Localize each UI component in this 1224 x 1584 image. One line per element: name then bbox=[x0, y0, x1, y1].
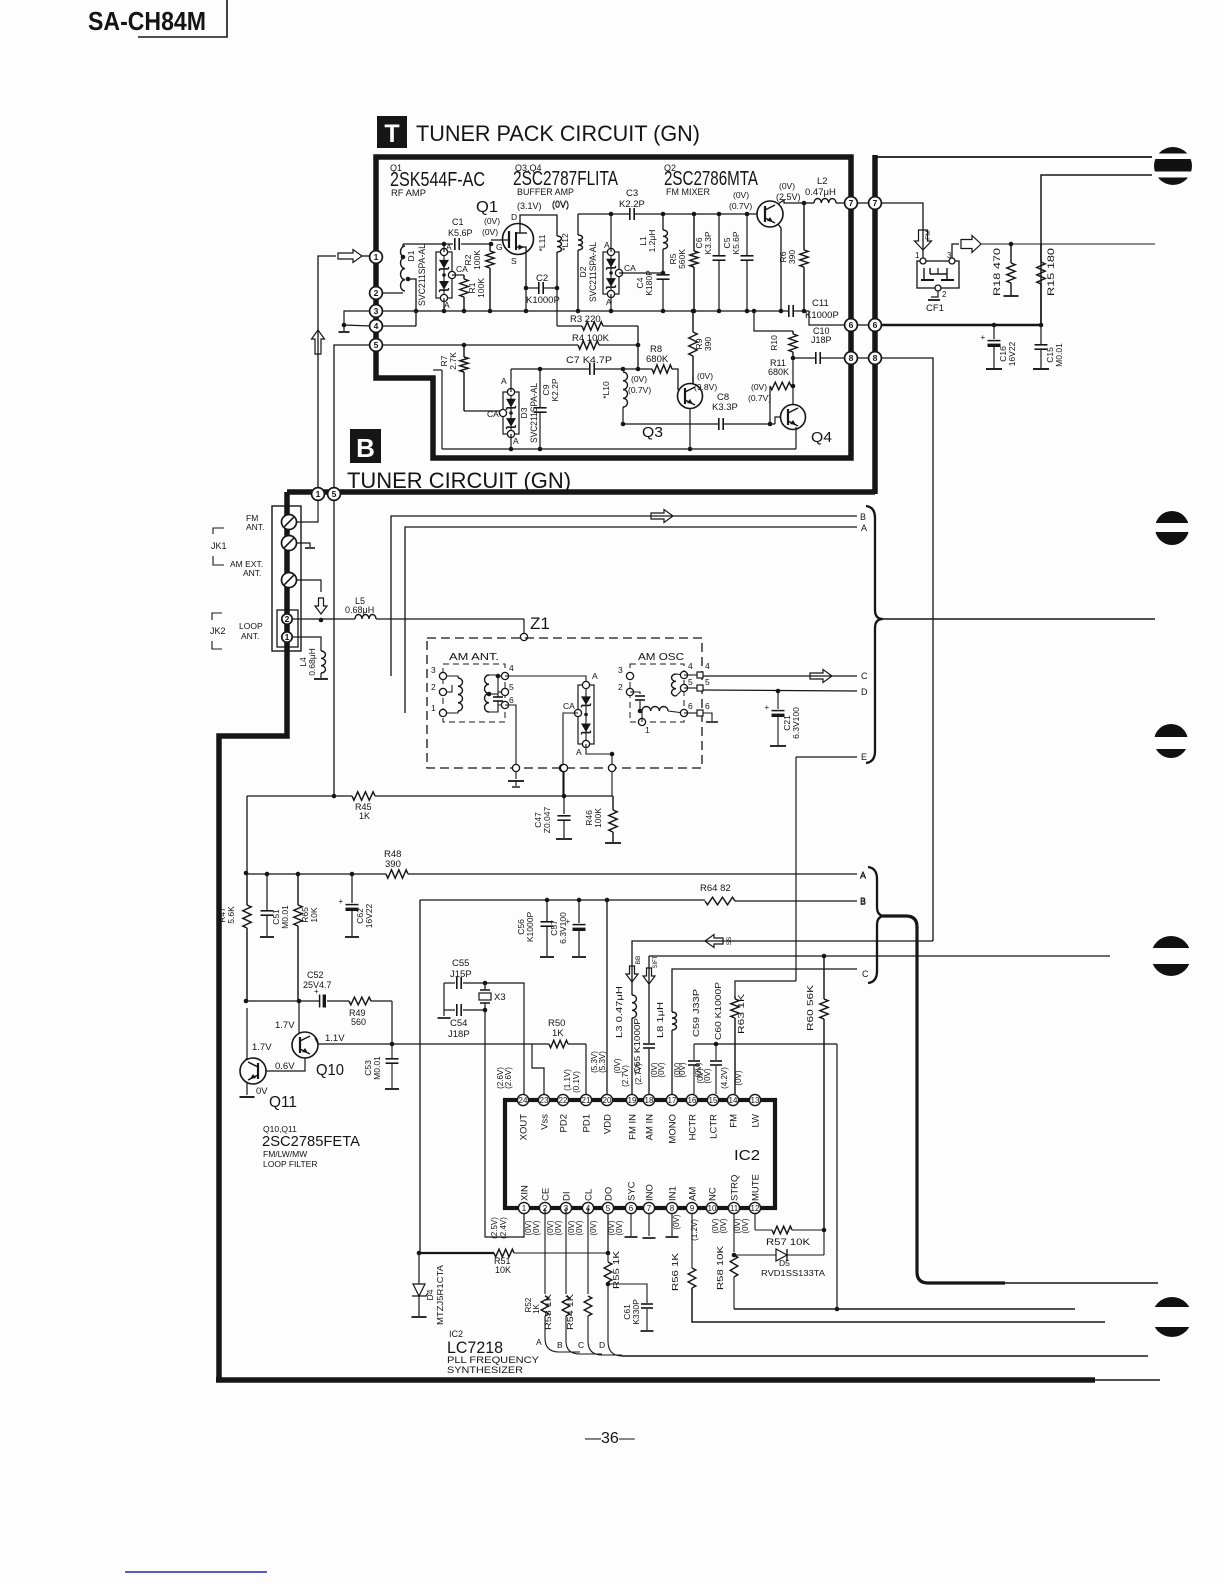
resistor R49 560 bbox=[349, 997, 371, 1005]
svg-text:1: 1 bbox=[316, 489, 321, 499]
svg-text:RF AMP: RF AMP bbox=[391, 188, 426, 199]
svg-text:(2.6V): (2.6V) bbox=[504, 1067, 513, 1089]
transformer block Z1 dashed box bbox=[427, 638, 702, 768]
svg-text:R63 1K: R63 1K bbox=[736, 994, 746, 1034]
IC2 LC7218 body bbox=[505, 1100, 775, 1208]
wire Z1-4 to C bbox=[703, 675, 857, 677]
svg-text:(0V): (0V) bbox=[672, 1214, 681, 1229]
svg-text:5: 5 bbox=[688, 677, 693, 687]
svg-text:SYC: SYC bbox=[627, 1181, 638, 1201]
svg-text:24: 24 bbox=[519, 1096, 528, 1105]
wire D2 bottom bbox=[610, 294, 612, 311]
wire net5 vertical bbox=[334, 345, 370, 488]
wire terminal 1 input bbox=[402, 244, 404, 246]
svg-text:CA: CA bbox=[563, 701, 575, 711]
svg-text:INO: INO bbox=[645, 1184, 656, 1201]
svg-text:680K: 680K bbox=[768, 367, 789, 377]
wire bus A B C D bbox=[607, 1284, 609, 1341]
wire R49 to line bbox=[391, 1001, 393, 1044]
svg-text:8: 8 bbox=[670, 1204, 675, 1213]
capacitor C54 J18P bbox=[443, 983, 445, 1010]
svg-text:15: 15 bbox=[709, 1096, 718, 1105]
svg-text:+: + bbox=[314, 987, 319, 996]
svg-text:J18P: J18P bbox=[448, 1029, 470, 1040]
svg-text:C59 J33P: C59 J33P bbox=[691, 989, 701, 1037]
svg-text:ANT.: ANT. bbox=[241, 631, 259, 641]
svg-text:4: 4 bbox=[374, 321, 379, 331]
svg-text:3: 3 bbox=[431, 665, 436, 675]
svg-text:(0V): (0V) bbox=[482, 227, 498, 237]
capacitor C47 Z0.047 bbox=[562, 794, 567, 799]
svg-text:A: A bbox=[592, 671, 598, 681]
svg-text:6: 6 bbox=[629, 1204, 634, 1213]
svg-text:D: D bbox=[511, 212, 517, 222]
resistor R18 470 bbox=[1010, 244, 1012, 263]
model label box bbox=[138, 0, 227, 37]
resistor R6 390 bbox=[803, 203, 805, 250]
svg-text:SVC211SPA-AL: SVC211SPA-AL bbox=[588, 242, 598, 302]
wire R50 line bbox=[568, 1043, 586, 1045]
terminal circles on tuner circuit border bbox=[312, 488, 325, 501]
svg-text:CA: CA bbox=[624, 263, 636, 273]
AM ANT pins 3 2 1 bbox=[439, 672, 446, 679]
wire D3 bottom bbox=[510, 434, 512, 449]
inductor L3 0.47uH bbox=[632, 995, 637, 1018]
svg-text:*L10: *L10 bbox=[601, 381, 611, 399]
varactor D2 SVC211SPA-AL bbox=[603, 252, 619, 294]
wire D2 CA to L1/C4 node bbox=[619, 272, 663, 274]
svg-text:14: 14 bbox=[729, 1096, 738, 1105]
svg-text:6.3V100: 6.3V100 bbox=[558, 912, 568, 944]
svg-text:3: 3 bbox=[947, 251, 952, 260]
svg-text:XOUT: XOUT bbox=[519, 1114, 530, 1141]
svg-text:C: C bbox=[862, 969, 869, 979]
svg-text:(0V): (0V) bbox=[719, 1218, 728, 1233]
svg-text:JK1: JK1 bbox=[211, 541, 227, 551]
wire SYC INO IN1 grounds bbox=[630, 1214, 632, 1236]
resistor R60 56K bbox=[823, 956, 825, 999]
rail C7 row bbox=[511, 368, 589, 370]
svg-text:(2.7V): (2.7V) bbox=[621, 1065, 630, 1087]
svg-text:B: B bbox=[860, 512, 866, 522]
wire C2 left down bbox=[525, 288, 527, 311]
svg-text:DI: DI bbox=[562, 1192, 573, 1202]
AM ANT transformer dashed box bbox=[443, 664, 505, 722]
svg-text:C3: C3 bbox=[626, 188, 638, 199]
svg-text:C2: C2 bbox=[536, 273, 548, 284]
arrow up on net1 bbox=[312, 330, 325, 354]
resistor R54 1K bbox=[584, 1296, 592, 1316]
svg-text:(0V): (0V) bbox=[733, 190, 749, 200]
svg-text:Q4: Q4 bbox=[811, 429, 832, 446]
ground terminal3/4 bbox=[344, 311, 371, 326]
arrow on line B bbox=[651, 510, 673, 523]
svg-text:(0V): (0V) bbox=[678, 1062, 687, 1077]
varactor D3 SVC211SPA-AL bbox=[503, 392, 519, 434]
svg-text:K1000P: K1000P bbox=[525, 912, 535, 943]
svg-text:Z1: Z1 bbox=[530, 614, 550, 633]
svg-text:1.7V: 1.7V bbox=[252, 1042, 272, 1053]
svg-text:(0V): (0V) bbox=[554, 1220, 563, 1235]
FET Q1 bbox=[503, 224, 534, 255]
tuner circuit border bottom bbox=[216, 1377, 1095, 1383]
coil tap wire bbox=[408, 279, 416, 326]
wire left end of bottom rail bbox=[441, 370, 443, 449]
svg-text:S: S bbox=[511, 256, 517, 266]
svg-text:J18P: J18P bbox=[811, 335, 832, 345]
AM ANT secondary cap bbox=[489, 693, 498, 695]
capacitor C65 K1000P bbox=[643, 1043, 655, 1045]
svg-text:390: 390 bbox=[787, 250, 797, 264]
terminal jack 2 bbox=[282, 614, 292, 624]
svg-text:K2.2P: K2.2P bbox=[550, 378, 560, 401]
binding hole 3 bbox=[1154, 724, 1188, 758]
wire C59 line drop right bbox=[836, 1044, 838, 1309]
svg-text:PD2: PD2 bbox=[559, 1114, 570, 1132]
svg-text:Z0.047: Z0.047 bbox=[542, 806, 552, 833]
resistor R65 10K bbox=[297, 874, 299, 905]
svg-text:CE: CE bbox=[541, 1188, 552, 1201]
svg-text:1.2μH: 1.2μH bbox=[647, 230, 657, 253]
resistor R63 1K bbox=[734, 996, 736, 999]
svg-text:C60 K1000P: C60 K1000P bbox=[713, 982, 723, 1040]
svg-text:100K: 100K bbox=[472, 250, 482, 270]
svg-text:K180P: K180P bbox=[644, 270, 654, 296]
svg-text:XIN: XIN bbox=[520, 1185, 531, 1201]
svg-text:CL: CL bbox=[584, 1189, 595, 1201]
svg-text:(0V): (0V) bbox=[589, 1220, 598, 1235]
transistor Q4 bbox=[781, 405, 806, 430]
terminal circles left 1-5 bbox=[370, 251, 383, 264]
svg-text:13: 13 bbox=[751, 1096, 760, 1105]
inductor *L11 bbox=[557, 236, 562, 252]
resistor R52 1K bbox=[541, 1296, 549, 1316]
svg-text:C11: C11 bbox=[812, 298, 829, 309]
transistor Q10 bbox=[292, 1032, 318, 1058]
svg-text:A: A bbox=[604, 240, 610, 250]
svg-text:PD1: PD1 bbox=[582, 1114, 593, 1132]
svg-text:D: D bbox=[599, 1340, 605, 1350]
svg-text:AM IN: AM IN bbox=[645, 1114, 656, 1141]
svg-text:B: B bbox=[557, 1340, 563, 1350]
svg-text:0.6V: 0.6V bbox=[275, 1061, 295, 1072]
rail terminal3 0V bbox=[381, 310, 788, 312]
svg-text:R10: R10 bbox=[769, 335, 779, 351]
AM ANT pins 4 5 6 bbox=[501, 672, 508, 679]
tuner circuit border top/right bbox=[872, 155, 878, 494]
resistor R57 10K bbox=[754, 1214, 756, 1230]
svg-text:4: 4 bbox=[688, 661, 693, 671]
svg-text:D4: D4 bbox=[425, 1289, 435, 1300]
rail bottom tuner pack bbox=[442, 448, 796, 450]
svg-text:Q3: Q3 bbox=[642, 424, 663, 441]
wire HCTR cap line bbox=[694, 1043, 837, 1045]
svg-text:12: 12 bbox=[751, 1204, 760, 1213]
rail 0V top FM mixer bbox=[578, 213, 629, 215]
svg-text:(1.2V): (1.2V) bbox=[690, 1219, 699, 1241]
rail B with R64 bbox=[419, 900, 421, 1253]
wire R56 to right edge bbox=[692, 1288, 1105, 1322]
svg-text:T: T bbox=[384, 120, 399, 148]
svg-text:A: A bbox=[860, 871, 866, 881]
svg-text:R55 1K: R55 1K bbox=[612, 1250, 621, 1289]
svg-text:—36—: —36— bbox=[585, 1430, 635, 1447]
wire D2 top bbox=[610, 214, 612, 252]
AM ANT secondary coil bbox=[485, 675, 490, 712]
svg-text:6: 6 bbox=[849, 320, 854, 330]
wire Q4 emitter bbox=[795, 427, 797, 449]
svg-text:10: 10 bbox=[708, 1204, 717, 1213]
svg-text:(0V): (0V) bbox=[615, 1220, 624, 1235]
capacitor C57 6.3V100 bbox=[578, 900, 580, 923]
capacitor C11 K1000P bbox=[788, 305, 790, 317]
wire jack2 to L5 bbox=[293, 618, 355, 620]
diode D5 RVD1SS133TA bbox=[734, 1254, 776, 1256]
wire loop filter node bbox=[246, 1000, 319, 1002]
AM OSC cap bbox=[630, 692, 640, 694]
section icon B bbox=[350, 429, 381, 463]
svg-text:JK2: JK2 bbox=[210, 626, 226, 636]
svg-text:6: 6 bbox=[873, 320, 878, 330]
wire Q10 base from node bbox=[298, 1001, 300, 1033]
wire VDD drop bbox=[606, 900, 608, 1094]
wire L5 to Z1 bbox=[523, 619, 525, 634]
svg-text:K5.6P: K5.6P bbox=[448, 228, 473, 238]
jack JK2 inner box bbox=[277, 610, 298, 647]
wire chassis screw ground bbox=[296, 543, 310, 547]
inductor L1 1.2uH bbox=[663, 230, 668, 249]
capacitor C56 K1000P bbox=[546, 900, 548, 921]
wire Q10 collector out bbox=[315, 1038, 318, 1044]
svg-text:+: + bbox=[981, 333, 986, 342]
svg-text:3: 3 bbox=[374, 306, 379, 316]
svg-text:K3.3P: K3.3P bbox=[712, 402, 738, 413]
arrow SS on FM line bbox=[705, 935, 723, 948]
svg-text:(0V): (0V) bbox=[631, 374, 647, 384]
wire MONO to C line bbox=[672, 969, 857, 1012]
svg-text:20: 20 bbox=[603, 1096, 612, 1105]
wire Z1-5 to D bbox=[703, 690, 857, 691]
svg-text:0.68μH: 0.68μH bbox=[345, 605, 374, 615]
svg-text:R57 10K: R57 10K bbox=[766, 1237, 810, 1247]
svg-text:R3 220: R3 220 bbox=[570, 314, 601, 325]
svg-text:(0V): (0V) bbox=[552, 199, 569, 209]
svg-text:1: 1 bbox=[915, 251, 920, 260]
svg-text:8: 8 bbox=[849, 353, 854, 363]
svg-text:1K: 1K bbox=[532, 1303, 541, 1313]
wire Q1 source bbox=[524, 247, 526, 288]
svg-text:LCTR: LCTR bbox=[709, 1114, 720, 1139]
wire AM ANT pin4 to varactor bbox=[505, 676, 586, 682]
capacitor C6 K3.3P bbox=[718, 214, 720, 256]
wire terminal7 to CF1 bbox=[881, 203, 923, 258]
svg-text:2: 2 bbox=[374, 288, 379, 298]
antenna arrow bbox=[315, 598, 327, 614]
svg-text:7: 7 bbox=[873, 198, 878, 208]
svg-text:M0.01: M0.01 bbox=[1054, 343, 1064, 367]
svg-text:(0V): (0V) bbox=[751, 382, 767, 392]
svg-text:MONO: MONO bbox=[668, 1114, 679, 1144]
svg-text:(0.1V): (0.1V) bbox=[572, 1071, 581, 1093]
svg-text:L2: L2 bbox=[817, 176, 828, 187]
resistor R51 10K bbox=[494, 1249, 514, 1257]
wire CF1 pin2 ground bbox=[931, 291, 938, 297]
svg-text:17: 17 bbox=[668, 1096, 677, 1105]
svg-text:R53 1K: R53 1K bbox=[544, 1293, 553, 1330]
svg-text:+: + bbox=[765, 703, 770, 712]
svg-text:VDD: VDD bbox=[603, 1114, 614, 1134]
capacitor C16 16V22 bbox=[993, 325, 995, 339]
svg-text:5.6K: 5.6K bbox=[226, 906, 236, 924]
svg-text:FM IN: FM IN bbox=[628, 1114, 639, 1140]
inductor *L12 bbox=[578, 235, 583, 250]
svg-text:(2.7V): (2.7V) bbox=[634, 1063, 643, 1085]
wire Q2 collector bbox=[778, 200, 804, 204]
wire AM IF line y956 bbox=[648, 956, 650, 1043]
svg-text:M0.01: M0.01 bbox=[280, 905, 290, 929]
svg-text:(2.4V): (2.4V) bbox=[499, 1217, 508, 1239]
svg-text:(9.8V): (9.8V) bbox=[694, 382, 717, 392]
wire R7 to D3 CA bbox=[464, 410, 503, 412]
svg-text:AM ANT.: AM ANT. bbox=[449, 651, 499, 663]
resistor R7 2.7K bbox=[463, 345, 465, 357]
transistor Q11 bbox=[240, 1058, 266, 1084]
svg-text:1K: 1K bbox=[359, 811, 370, 821]
wire brace to hole2 bbox=[881, 618, 1155, 620]
svg-text:ANT.: ANT. bbox=[246, 522, 264, 532]
svg-text:K330P: K330P bbox=[631, 1299, 641, 1325]
terminal 2 wire bbox=[381, 292, 403, 294]
brace right connector upper bbox=[866, 506, 883, 763]
wire jack1 to L4 bbox=[293, 637, 321, 651]
ceramic filter CF1 bbox=[917, 261, 959, 288]
svg-text:SYNTHESIZER: SYNTHESIZER bbox=[447, 1365, 523, 1376]
inductor *L10 bbox=[623, 372, 628, 407]
capacitor C62 16V22 bbox=[351, 874, 353, 903]
zener diode D4 MTZJ5R1CTA bbox=[418, 1253, 420, 1284]
svg-text:RVD1SS133TA: RVD1SS133TA bbox=[761, 1268, 825, 1278]
svg-text:FM MIXER: FM MIXER bbox=[666, 187, 710, 198]
svg-text:SS: SS bbox=[726, 936, 733, 945]
svg-text:6: 6 bbox=[688, 701, 693, 711]
inductor L8 1uH bbox=[672, 1012, 677, 1030]
IC2 bottom pins 1-12 bbox=[518, 1202, 529, 1213]
svg-text:Q1: Q1 bbox=[476, 199, 498, 216]
AM ANT primary coil bbox=[458, 678, 463, 711]
svg-text:E: E bbox=[861, 752, 867, 762]
svg-text:AM: AM bbox=[688, 1187, 699, 1201]
svg-text:L8 1μH: L8 1μH bbox=[655, 1002, 665, 1038]
resistor R10 390 bbox=[792, 331, 794, 334]
AM OSC pins 3 2 1 bbox=[626, 672, 633, 679]
capacitor C15 M0.01 bbox=[1040, 325, 1042, 344]
svg-text:D3: D3 bbox=[519, 407, 529, 418]
svg-text:D: D bbox=[861, 687, 868, 697]
svg-text:A: A bbox=[861, 523, 867, 533]
svg-text:390: 390 bbox=[385, 859, 401, 870]
arrow into AM IN bbox=[643, 968, 655, 984]
resistor R56 1K bbox=[691, 1214, 693, 1268]
wire Z1 to C47 bbox=[563, 771, 565, 796]
svg-text:K1000P: K1000P bbox=[526, 295, 560, 306]
capacitor C9 K2.2P bbox=[539, 369, 541, 408]
svg-text:A: A bbox=[536, 1337, 542, 1347]
svg-text:C: C bbox=[578, 1340, 584, 1350]
svg-text:5: 5 bbox=[509, 682, 514, 692]
svg-text:D5: D5 bbox=[779, 1258, 790, 1268]
svg-text:K1000P: K1000P bbox=[805, 310, 839, 321]
wire DO net R51 bbox=[544, 1208, 546, 1294]
svg-text:G: G bbox=[496, 242, 503, 252]
wire line A upper bbox=[405, 527, 857, 713]
svg-text:1.7V: 1.7V bbox=[275, 1020, 295, 1031]
svg-text:L3 0.47μH: L3 0.47μH bbox=[614, 986, 624, 1038]
wire L11 node down to R3 line bbox=[556, 288, 558, 326]
svg-text:390: 390 bbox=[703, 337, 713, 351]
svg-text:TUNER PACK CIRCUIT (GN): TUNER PACK CIRCUIT (GN) bbox=[416, 121, 700, 146]
svg-text:K5.6P: K5.6P bbox=[731, 231, 741, 254]
svg-text:2: 2 bbox=[285, 614, 290, 624]
resistor R46 100K bbox=[612, 796, 614, 810]
svg-text:R54 1K: R54 1K bbox=[566, 1293, 575, 1330]
wire terminal8 to FM IN line bbox=[881, 358, 933, 941]
arrow BB into FM IN bbox=[626, 966, 638, 982]
wire Q11 collector bbox=[243, 1008, 247, 1063]
wire D1 CA to R1 bbox=[452, 274, 464, 276]
svg-text:18: 18 bbox=[645, 1096, 654, 1105]
svg-text:1: 1 bbox=[374, 252, 379, 262]
svg-text:Q11: Q11 bbox=[269, 1094, 297, 1111]
capacitor C21 6.3V100 bbox=[777, 691, 779, 709]
wire X3 to XOUT bbox=[485, 983, 524, 1094]
wire net1 vertical bbox=[318, 256, 336, 488]
svg-text:HCTR: HCTR bbox=[688, 1114, 699, 1141]
svg-text:4: 4 bbox=[509, 663, 514, 673]
wire right vertical to hole4 line bbox=[648, 955, 650, 957]
svg-text:4: 4 bbox=[705, 661, 710, 671]
wire Vss hook bbox=[532, 1044, 544, 1094]
wire R45 rail bbox=[247, 795, 352, 797]
binding hole 2 bbox=[1155, 511, 1189, 545]
svg-text:FM: FM bbox=[729, 1114, 740, 1128]
svg-text:10K: 10K bbox=[495, 1265, 511, 1275]
svg-text:2SC2785FETA: 2SC2785FETA bbox=[262, 1133, 360, 1150]
resistor R1 100K bbox=[463, 275, 465, 279]
svg-text:680K: 680K bbox=[646, 354, 669, 365]
svg-text:1.1V: 1.1V bbox=[325, 1033, 345, 1044]
transistor Q2 bbox=[757, 201, 783, 227]
inductor L4 0.68uH bbox=[321, 651, 326, 673]
rail terminal6 right bbox=[881, 324, 1041, 326]
transistor Q3 bbox=[678, 384, 703, 409]
svg-text:1: 1 bbox=[431, 703, 436, 713]
svg-text:FM: FM bbox=[925, 230, 932, 239]
wire varactor CA down bbox=[563, 713, 578, 765]
svg-text:0.47μH: 0.47μH bbox=[805, 187, 836, 198]
tuner circuit border left bbox=[219, 492, 287, 1380]
resistor R5 560K bbox=[693, 214, 695, 251]
svg-text:560: 560 bbox=[351, 1017, 366, 1027]
wire FM pin line bbox=[735, 981, 796, 996]
svg-text:C: C bbox=[861, 671, 868, 681]
resistor R58 10K bbox=[733, 1214, 735, 1252]
svg-text:*L12: *L12 bbox=[560, 233, 570, 251]
svg-text:MTZJ5R1CTA: MTZJ5R1CTA bbox=[435, 1265, 445, 1325]
svg-text:K2.2P: K2.2P bbox=[619, 199, 645, 210]
wire D3 top bbox=[510, 369, 512, 392]
svg-text:0V: 0V bbox=[256, 1086, 268, 1097]
screw terminal chassis bbox=[282, 536, 297, 551]
